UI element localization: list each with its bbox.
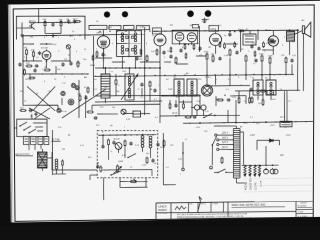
title block col right — [295, 202, 297, 219]
svg-text:x: x — [58, 37, 59, 39]
value label 0,25 n38 — [135, 145, 140, 147]
svg-text:RETE: RETE — [280, 117, 286, 119]
dial pulley P5 — [68, 99, 74, 105]
junction dot m39 — [209, 95, 210, 96]
value label 100p n1 — [52, 44, 57, 46]
svg-text:S.C.: S.C. — [155, 117, 159, 119]
bus resistor RB — [238, 30, 245, 32]
tube V4b half — [187, 33, 196, 45]
junction dot m22 — [94, 76, 95, 77]
registration dot 4 — [205, 10, 212, 17]
svg-text:110 V: 110 V — [222, 147, 228, 149]
value label 25 n151 — [150, 89, 153, 91]
junction dot m68 — [42, 73, 43, 74]
dial pulley P4 — [57, 108, 61, 112]
value label M n44 — [30, 116, 32, 118]
AM tuner section box — [22, 34, 160, 106]
label box MF2 — [192, 24, 198, 28]
variable capacitor CV1 dial line b — [32, 86, 55, 110]
solid shield line — [163, 133, 176, 185]
IF transformer T1 can — [116, 30, 142, 56]
value label 50 n76 — [244, 101, 247, 103]
value label 12 n81 — [130, 167, 133, 169]
wire af h — [164, 43, 274, 64]
wire drop — [16, 22, 61, 34]
wire low mid h — [162, 95, 246, 111]
label box 6BA6 — [152, 28, 161, 34]
value label 68 n83 — [154, 163, 157, 165]
resistor R1 — [42, 19, 47, 27]
title block col 3 — [197, 203, 199, 213]
logo text RADIO — [158, 208, 167, 212]
value label 0,5M n15 — [224, 55, 229, 57]
header APPR — [199, 202, 207, 205]
value label 25 n22 — [150, 89, 153, 91]
output coupling cap C17 — [156, 142, 159, 146]
junction dot m32 — [214, 74, 215, 75]
junction dot m18 — [115, 67, 116, 68]
resistor R26 — [263, 41, 265, 48]
svg-text:10K: 10K — [58, 19, 62, 21]
wire mains bus — [183, 121, 313, 123]
capacitor C5 — [61, 62, 64, 66]
value label 5p n118 — [224, 35, 227, 37]
value label 3 n116 — [164, 43, 166, 45]
wire if drops — [103, 47, 160, 68]
junction dot m66 — [22, 60, 23, 61]
dial cord long diagonal — [62, 89, 107, 118]
junction dot m69 — [51, 73, 52, 74]
resistor Rb1 — [238, 96, 240, 104]
capacitor C21 — [192, 115, 196, 118]
title underline — [232, 206, 285, 209]
resistor Rlm1 — [216, 99, 224, 101]
resistor Rb2 — [249, 96, 251, 104]
tube V4a half — [175, 32, 184, 45]
junction dot m51 — [209, 122, 210, 123]
value label 1K n12 — [167, 51, 170, 53]
junction dot m40 — [224, 95, 225, 96]
value label 150 n18 — [281, 55, 285, 57]
title text — [231, 204, 266, 207]
right cell number — [297, 205, 312, 207]
resistor R10 — [204, 52, 209, 61]
svg-text:1M: 1M — [24, 48, 27, 50]
right cell scala — [298, 211, 304, 214]
right cell DISEGNO — [300, 202, 308, 204]
header DIS — [189, 204, 193, 206]
value label 7 n98 — [42, 69, 44, 71]
below tube parts B — [140, 48, 166, 56]
amp inner wire 1 — [97, 145, 151, 163]
value label 47K n14 — [199, 55, 203, 57]
wire det drop — [229, 31, 258, 86]
svg-text:6BA6: 6BA6 — [153, 30, 159, 33]
resistor R19 — [163, 139, 165, 147]
resistor R2 — [58, 19, 63, 27]
svg-text:FONO: FONO — [205, 77, 211, 79]
svg-text:CAMB.TEN: CAMB.TEN — [249, 177, 252, 190]
junction dot m33 — [221, 74, 222, 75]
resistor R8 — [19, 108, 26, 112]
value label 330 n20 — [104, 87, 108, 89]
title block mid rule — [156, 211, 296, 213]
svg-text:1n: 1n — [253, 63, 255, 65]
value label 2 n114 — [134, 37, 136, 39]
value label 0,5 n121 — [266, 43, 270, 45]
value label 2,2M n73 — [196, 101, 201, 103]
below tube parts C — [170, 46, 187, 59]
value label 8 n134 — [44, 81, 46, 83]
svg-text:6,8K: 6,8K — [140, 27, 145, 29]
wire AF bus — [206, 84, 250, 87]
junction dot m37 — [279, 74, 280, 75]
svg-text:osc: osc — [94, 79, 97, 81]
lower mid bus — [160, 114, 240, 117]
resistor R3 — [24, 48, 28, 56]
ground G1 — [51, 33, 54, 37]
wire amp entry — [90, 175, 97, 180]
resistor Rlm2 — [251, 96, 253, 103]
junction dot m16 — [103, 67, 104, 68]
photo left sliver — [0, 0, 11, 226]
capacitor C13 — [235, 50, 238, 54]
junction dot m72 — [81, 73, 82, 74]
terminal wire TW1 — [180, 142, 185, 176]
wire af drops — [206, 30, 292, 85]
svg-text:220 V: 220 V — [222, 133, 229, 135]
junction dot m11 — [204, 30, 205, 31]
wire speaker link — [295, 30, 304, 55]
value label 4 n105 — [164, 57, 166, 59]
value label S.C. n32 — [155, 117, 159, 119]
label 10.7MC — [51, 139, 60, 141]
value label 5 n110 — [248, 51, 250, 53]
value label x n130 — [58, 37, 59, 39]
value label 68K n21 — [116, 91, 120, 93]
title right rule b — [296, 212, 313, 214]
svg-text:T.E.: T.E. — [173, 77, 177, 79]
junction dot m15 — [265, 29, 266, 30]
capacitor Clm1 — [226, 98, 230, 101]
small box B1 — [267, 91, 274, 95]
junction dot m24 — [119, 75, 120, 76]
header DATA — [212, 202, 219, 205]
value label 25MF n80 — [118, 161, 124, 163]
value label OSC n9 — [122, 71, 127, 73]
svg-text:3,9K: 3,9K — [142, 165, 147, 167]
value label 5n n28 — [280, 89, 282, 91]
pilot lamp LP4 — [121, 109, 126, 114]
svg-text:125V: 125V — [270, 125, 275, 127]
resistor R16 — [245, 54, 247, 62]
junction dot m8 — [171, 30, 172, 31]
label box 12AV6 — [209, 25, 219, 31]
bus parts cluster — [219, 31, 241, 52]
junction dot m43 — [98, 135, 99, 136]
value label 10K n13 — [174, 63, 178, 65]
wire b+ drops2 — [239, 91, 263, 101]
switch wafer contacts — [19, 122, 43, 134]
resistor R14 — [175, 56, 177, 64]
junction dot m41 — [161, 95, 162, 96]
capacitor C6 — [84, 95, 87, 99]
capacitor C15 — [112, 140, 115, 144]
svg-text:1n: 1n — [238, 29, 240, 31]
svg-text:56K: 56K — [77, 94, 81, 96]
svg-text:pick-up: pick-up — [60, 111, 67, 113]
junction dot m7 — [164, 30, 165, 31]
svg-text:220K: 220K — [268, 56, 273, 58]
capacitor C8b — [153, 88, 156, 92]
below tube parts A — [92, 50, 105, 61]
value label 0,5 n70 — [140, 97, 144, 99]
capacitor C8 — [140, 82, 143, 86]
value label 4n7 n143 — [166, 79, 170, 81]
junction J1 — [105, 66, 161, 69]
value label 2n n61 — [152, 35, 154, 37]
wire long mid bus — [95, 67, 160, 69]
vertical label 2 — [249, 177, 252, 190]
value label 3n n57 — [246, 29, 248, 31]
value label G.F. n45 — [58, 127, 62, 129]
value label 27 n43 — [185, 139, 188, 141]
voltage tap 160V — [217, 137, 234, 141]
junction dot m38 — [199, 95, 200, 96]
below V4 parts — [184, 43, 195, 51]
resistor R12 — [259, 54, 264, 63]
junction dot m67 — [22, 73, 23, 74]
junction dot m23 — [109, 75, 110, 76]
value label 130 n89 — [204, 131, 208, 133]
junction dot m52 — [223, 122, 224, 123]
wire osc link — [23, 49, 88, 80]
svg-text:G.F.: G.F. — [58, 127, 62, 129]
junction dot m63 — [38, 22, 39, 23]
voltage tap 220V — [215, 133, 234, 137]
capacitor C10 — [254, 58, 257, 62]
junction dot m19 — [125, 67, 126, 68]
value label 0,02 n19 — [292, 55, 297, 57]
selector stem wire — [211, 145, 214, 165]
resistor R7 — [77, 94, 81, 102]
tube V3 IF amp — [154, 32, 166, 47]
below box wire a — [120, 177, 148, 188]
svg-text:M.F.: M.F. — [120, 37, 124, 39]
value label 1 n101 — [96, 49, 98, 51]
value label 30p n58 — [68, 23, 72, 25]
value label 9p n60 — [96, 21, 99, 23]
junction dot m59 — [55, 35, 56, 36]
svg-text:1M: 1M — [211, 54, 214, 56]
resistor R22 — [86, 111, 94, 113]
wire mid h1 — [93, 35, 161, 96]
det cluster extra — [250, 44, 260, 57]
shield row box 2 — [109, 25, 121, 29]
wire sec right — [240, 132, 244, 165]
capacitor C3 — [38, 51, 41, 55]
value label 0,5 n84 — [166, 167, 170, 169]
value label 0,25 n75 — [232, 97, 237, 99]
junction dot m28 — [164, 75, 165, 76]
wire B+ verticals — [284, 55, 305, 121]
dial pulley P3 — [61, 91, 65, 95]
value label 6 n126 — [76, 51, 78, 53]
svg-text:AM FM FONO: AM FM FONO — [15, 153, 29, 156]
volume pot P1 — [113, 164, 121, 173]
resistor R9b — [149, 80, 151, 87]
junction dot m31 — [194, 74, 195, 75]
ground G2 — [34, 112, 37, 116]
value label RETE n52 — [280, 117, 286, 119]
value label 1,5K n42 — [178, 159, 183, 161]
junction dot m44 — [109, 134, 110, 135]
value label C.V. n5 — [62, 83, 66, 85]
lower mid drops — [228, 100, 237, 123]
fine print row 1 — [177, 212, 248, 216]
svg-text:1n: 1n — [176, 97, 178, 99]
junction dot m56 — [295, 121, 296, 122]
value label 500 n63 — [20, 91, 24, 93]
ground G0 — [20, 33, 23, 37]
value label 0,05 n88 — [196, 127, 201, 129]
value label T n87 — [124, 127, 126, 129]
value label S.G. n50 — [205, 111, 209, 113]
value label 2 n140 — [128, 83, 130, 85]
junction dot m49 — [152, 134, 153, 135]
FM tuner section box — [16, 15, 85, 40]
choke winding W1 — [244, 165, 247, 175]
value label osc n69 — [94, 79, 97, 81]
junction dot m26 — [144, 75, 145, 76]
wire top bus — [30, 8, 78, 23]
value label 2 n111 — [264, 51, 266, 53]
svg-text:RADIO: RADIO — [158, 208, 167, 212]
rectifier loop wire — [257, 140, 280, 146]
resistor R25 — [100, 165, 102, 172]
value label 0,1 n79 — [288, 101, 292, 103]
value label 1n n17 — [253, 63, 255, 65]
registration dot 3 — [187, 10, 194, 17]
value label 0,01 n53 — [108, 27, 113, 29]
value label 50p n4 — [57, 69, 61, 71]
svg-text:1,5K: 1,5K — [178, 159, 183, 161]
value label 125 n56 — [218, 25, 222, 27]
value label 47 n27 — [240, 85, 243, 87]
switch S3 — [203, 114, 212, 119]
junction dot m12 — [215, 30, 216, 31]
value label 6X4 n90 — [244, 123, 248, 125]
tone switch S2 — [110, 154, 136, 176]
capacitor C18 — [151, 158, 154, 162]
value label 220K n67 — [76, 63, 81, 65]
wire vertical bus 1 — [143, 27, 145, 115]
junction J3 — [102, 134, 143, 137]
value label 12K n41 — [170, 145, 174, 147]
transformer top lead — [214, 125, 243, 128]
junction dot m29 — [174, 74, 175, 75]
value label 3n3 n48 — [88, 157, 92, 159]
title block outline — [156, 201, 313, 220]
photo top sliver — [0, 0, 320, 5]
value label 15p n65 — [48, 91, 52, 93]
tube V6 output — [266, 30, 278, 48]
svg-text:4,7K: 4,7K — [30, 44, 35, 46]
vertical label 3 — [254, 182, 257, 190]
choke winding W2 — [249, 165, 252, 175]
capacitor C9 — [218, 56, 221, 60]
svg-text:47K: 47K — [31, 50, 35, 52]
value label MF n55 — [170, 25, 174, 27]
tuning indicator M1 — [201, 85, 212, 96]
value label S.F. n85 — [96, 125, 100, 127]
capacitor C16 — [129, 141, 132, 145]
value label 4,7K n0 — [30, 44, 35, 46]
photo bottom edge — [0, 219, 320, 226]
paper left edge shadow — [9, 4, 12, 223]
value label 6,3V n31 — [126, 119, 131, 121]
junction dot m48 — [147, 134, 148, 135]
junction dot m54 — [253, 122, 254, 123]
svg-text:100K: 100K — [168, 89, 173, 91]
junction dot m60 — [69, 35, 70, 36]
wire can links — [179, 95, 272, 116]
shield row box 4 — [136, 25, 149, 29]
vertical label 1 — [244, 183, 247, 190]
value label 470 n10 — [139, 59, 143, 61]
oscillator trimmer arrow — [121, 74, 139, 100]
filter bus wire — [242, 164, 279, 167]
terminal box TB1 — [280, 121, 292, 127]
junction dot m42 — [171, 95, 172, 96]
svg-text:2,2M: 2,2M — [196, 101, 201, 103]
junction dot m9 — [185, 30, 186, 31]
value label 2 n103 — [128, 57, 130, 59]
IF pair boxes B — [38, 136, 49, 144]
value label 50MF n40 — [160, 147, 166, 149]
antenna A1 — [201, 17, 209, 23]
svg-text:OSC: OSC — [122, 71, 127, 73]
tube V5 AF amp — [209, 32, 221, 47]
value label M.F. n113 — [120, 37, 124, 39]
ratio detector can T9 — [265, 77, 276, 95]
faint rule 1 — [243, 184, 312, 187]
svg-text:25MF: 25MF — [118, 161, 124, 163]
value label 9p n127 — [68, 55, 71, 57]
capacitor C2b — [51, 22, 54, 26]
value label 0,01 n47 — [80, 145, 85, 147]
svg-text:AP.: AP. — [186, 72, 189, 75]
junction dot m46 — [130, 134, 131, 135]
vertical label 4 — [260, 180, 262, 187]
wire filter up — [257, 145, 266, 165]
variable capacitor CV1 dial line a — [27, 86, 55, 111]
registration dot 2 — [122, 11, 128, 17]
value label 6,8K n54 — [140, 27, 145, 29]
value label 30 n131 — [72, 31, 75, 33]
transistor TR1 — [29, 20, 36, 30]
value label 5 n139 — [118, 85, 120, 87]
junction dot m17 — [109, 67, 110, 68]
value label 2 n149 — [262, 75, 264, 77]
svg-text:AM: AM — [84, 76, 87, 79]
junction dot m5 — [144, 30, 145, 31]
wire left inner col — [23, 44, 52, 62]
value label 0,1 n51 — [250, 117, 254, 119]
amp drop 1 — [102, 135, 104, 146]
transformer bottom lead — [236, 178, 247, 183]
svg-text:0,5M: 0,5M — [224, 55, 229, 57]
